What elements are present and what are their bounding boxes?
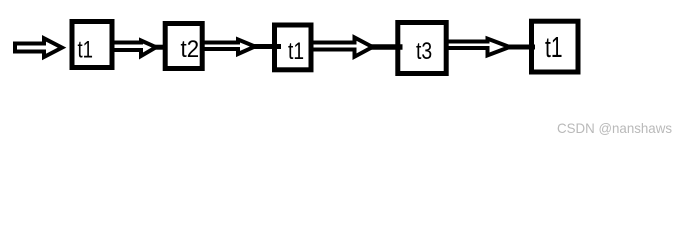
arrow A2 nub inside t1 (third) box (275, 44, 281, 49)
svg-text:t1: t1 (545, 32, 563, 64)
arrow A1 (t1 to t2, outline) (112, 41, 156, 57)
arrow A4 (t3 to t1, outline) (446, 39, 510, 56)
node box t1 (first) (72, 22, 112, 68)
arrow A3 tip stub poking into next box (370, 44, 403, 50)
svg-text:CSDN @nanshaws: CSDN @nanshaws (557, 120, 672, 136)
arrow A2 (t2 to t1, outline) (202, 40, 255, 55)
node box t3 (398, 23, 446, 74)
node box t1 (third) (275, 25, 312, 70)
node box t1 (fifth) (532, 21, 579, 72)
arrow A3 nub inside t3 box (398, 44, 403, 50)
svg-text:t2: t2 (181, 36, 200, 63)
svg-text:t3: t3 (416, 38, 432, 65)
svg-text:t1: t1 (288, 38, 304, 65)
arrow A0 (list entry arrow, outline block arrow) (15, 38, 62, 57)
arrow A4 tip stub poking into next box (507, 45, 535, 50)
arrow A1 tip stub (154, 45, 166, 50)
arrow A3 (t1 to t3, outline) (311, 38, 373, 57)
svg-text:t1: t1 (78, 37, 94, 64)
arrow A4 nub inside t1 box (531, 45, 535, 50)
arrow A2 tip stub poking into next box (253, 44, 281, 49)
node box t2 (165, 24, 202, 69)
